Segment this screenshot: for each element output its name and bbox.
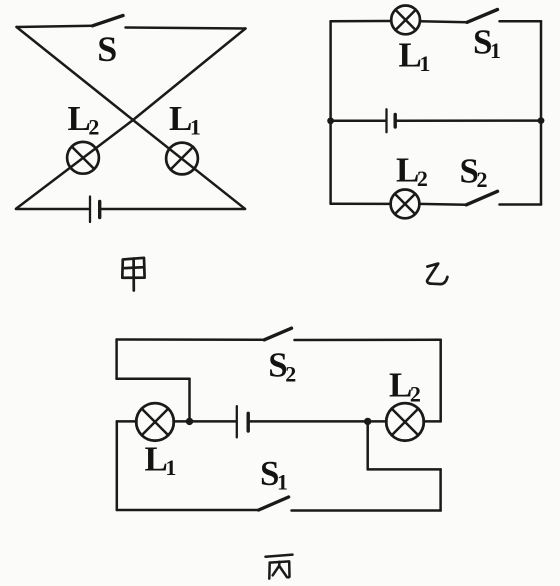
caption JIA character bbox=[122, 258, 144, 291]
wire top-left segment bbox=[331, 20, 392, 23]
wire L1 to node bbox=[174, 420, 190, 423]
svg-text:S: S bbox=[97, 29, 117, 69]
switch S1 (yi) bbox=[467, 10, 541, 23]
wire L2 right terminal bbox=[424, 420, 441, 423]
battery (yi) bbox=[387, 109, 396, 132]
wire top branch left vertical bbox=[115, 340, 118, 379]
wire top branch right vertical bbox=[439, 340, 442, 422]
lamp L1 (bing) bbox=[136, 403, 174, 441]
wire diagonal B to C bbox=[16, 29, 246, 209]
lamp L2 (bing) bbox=[386, 403, 424, 441]
wire middle right bbox=[397, 119, 541, 122]
wire return horizontal bbox=[368, 468, 441, 471]
switch S2 (yi) bbox=[466, 191, 541, 205]
wire top-left to switch S bbox=[17, 26, 93, 27]
wire bottom right vertical up bbox=[439, 469, 442, 510]
wire bottom to switch S1 bbox=[117, 509, 259, 512]
wire L1 left terminal bbox=[117, 420, 137, 423]
battery (jia) bbox=[90, 197, 100, 223]
wire step horizontal bbox=[117, 377, 190, 380]
wire node to battery bbox=[190, 420, 236, 423]
wire return vertical to node B bbox=[366, 421, 369, 469]
battery (bing) bbox=[237, 406, 248, 437]
caption YI character bbox=[427, 264, 447, 285]
wire lamp to switch S2 bbox=[419, 203, 466, 206]
node left (yi) bbox=[327, 117, 334, 124]
switch S2 (bing) bbox=[264, 328, 440, 340]
node right (yi) bbox=[538, 117, 545, 124]
node B (bing, left of L2) bbox=[364, 418, 371, 425]
lamp L2 (jia) bbox=[67, 142, 99, 174]
lamp L2 (yi) bbox=[391, 190, 420, 219]
switch S bbox=[93, 16, 246, 29]
wire top to switch S2 bbox=[117, 338, 265, 341]
wire left rail bbox=[329, 21, 332, 204]
wire bottom-left segment bbox=[331, 203, 391, 206]
wire diagonal A to D bbox=[17, 27, 246, 209]
wire step vertical to node bbox=[188, 379, 191, 422]
wire middle left bbox=[331, 120, 386, 123]
wire lamp to switch S1 bbox=[420, 21, 467, 22]
wire L1 down-left vertical bbox=[116, 421, 119, 510]
wire bottom left bbox=[16, 208, 89, 211]
wire battery to node right bbox=[250, 420, 368, 423]
lamp L1 (yi) bbox=[391, 6, 420, 35]
node A (bing, right of L1) bbox=[186, 418, 193, 425]
wire right rail bbox=[540, 21, 543, 204]
switch S1 (bing) bbox=[259, 497, 441, 511]
wire node to L2 bbox=[368, 420, 387, 423]
lamp L1 (jia) bbox=[166, 143, 198, 175]
wire bottom right bbox=[101, 208, 245, 211]
caption BING character bbox=[266, 555, 293, 579]
